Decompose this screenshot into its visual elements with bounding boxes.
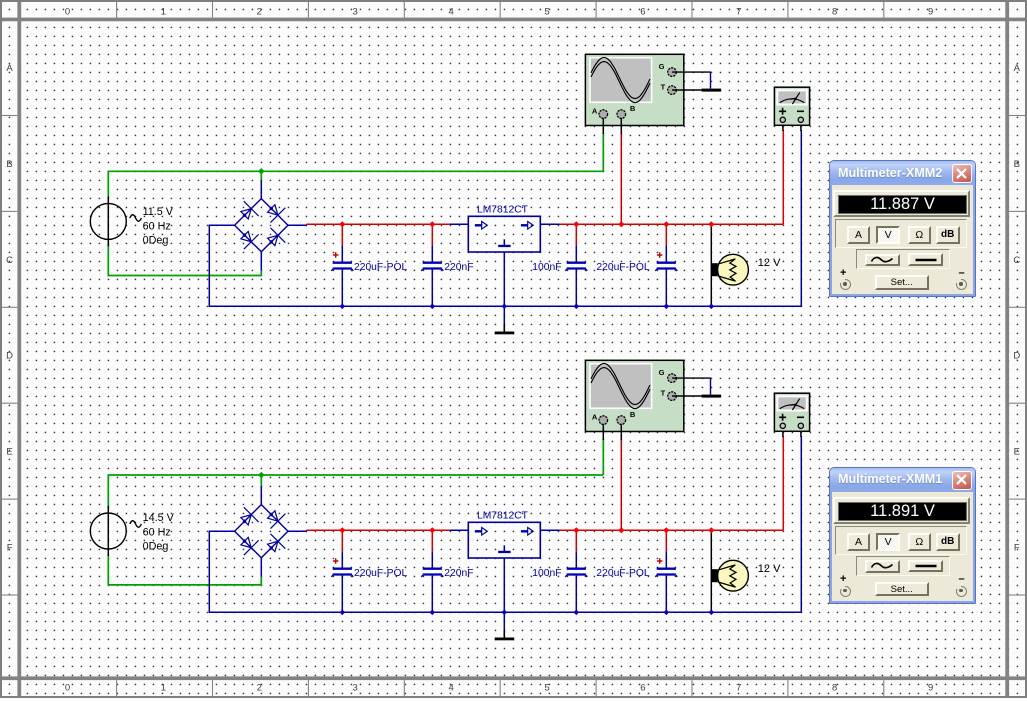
ruler numbers bottom (65, 682, 933, 693)
LCD display Multimeter-XMM1 (833, 497, 970, 524)
svg-text:220uF-POL: 220uF-POL (354, 262, 408, 273)
svg-text:F: F (7, 543, 13, 554)
wire green: bridge top stub (circuit 2) (260, 475, 262, 486)
voltmeter probe icon XMM (circuit 2) (774, 393, 809, 431)
ground symbol oscilloscope (circuit 2) (702, 395, 722, 398)
svg-text:11.5 V: 11.5 V (143, 206, 174, 218)
mode buttons panel Multimeter-XMM1 (835, 526, 967, 555)
svg-text:12 V: 12 V (758, 563, 781, 575)
wire: oscilloscope T to ground (circuit 2) (672, 395, 702, 397)
svg-text:A: A (6, 63, 13, 74)
label V2 value (143, 512, 175, 552)
wire: left return riser (circuit 1) (208, 225, 210, 307)
LCD display Multimeter-XMM2 (833, 190, 970, 217)
wire: oscilloscope T to ground (circuit 1) (672, 89, 702, 91)
junction dots ground rail (circuit 2) (339, 609, 714, 615)
wire green: oscilloscope A probe (circuit 2) (602, 439, 604, 475)
button A (847, 533, 870, 551)
waveform panel Multimeter-XMM2 (856, 249, 950, 269)
svg-text:60 Hz: 60 Hz (143, 220, 171, 232)
capacitor C2 220nF (circuit 2) (421, 532, 443, 612)
wire: ground bottom rail (circuit 1) (209, 305, 802, 307)
svg-text:6: 6 (640, 6, 645, 17)
svg-text:LM7812CT: LM7812CT (477, 205, 529, 216)
svg-text:D: D (6, 351, 13, 362)
label V1 value (143, 206, 174, 246)
bridge rectifier D2 (209, 486, 307, 577)
svg-text:4: 4 (448, 682, 453, 693)
wire green: source loop left vertical (circuit 1) (107, 171, 109, 199)
multimeter window Multimeter-XMM1 (829, 467, 976, 604)
svg-text:220uF-POL: 220uF-POL (596, 568, 650, 579)
wire red: riser to voltmeter plus (circuit 2) (782, 436, 784, 530)
svg-text:0Deg: 0Deg (143, 235, 169, 247)
plus terminal label (840, 573, 846, 585)
button Ohm (908, 533, 931, 551)
close button Multimeter-XMM1 (952, 471, 972, 490)
voltage regulator U1 LM7812CT (450, 216, 560, 252)
voltage regulator U2 LM7812CT (450, 522, 560, 558)
AC voltage source V1 (90, 196, 141, 246)
wire green: bridge top stub (circuit 1) (260, 171, 262, 180)
svg-text:0: 0 (65, 6, 70, 17)
svg-text:5: 5 (544, 682, 549, 693)
plus terminal jack (840, 586, 851, 597)
plus terminal jack (840, 279, 851, 290)
minus terminal label (959, 573, 965, 585)
svg-text:0Deg: 0Deg (143, 541, 169, 553)
svg-text:9: 9 (928, 6, 933, 17)
svg-text:220nF: 220nF (444, 568, 473, 579)
button A (847, 226, 870, 244)
wire red: rectifier output rail (circuit 2) (306, 529, 450, 531)
capacitor C4 220uF-POL (circuit 2) (655, 532, 677, 612)
svg-text:B: B (1014, 159, 1020, 170)
svg-text:2: 2 (257, 682, 262, 693)
ruler numbers top (65, 6, 933, 17)
wire: oscilloscope G to ground (circuit 2) (672, 377, 710, 379)
plus terminal label (840, 267, 846, 279)
ruler letters left (6, 63, 13, 554)
wire green: source loop left vertical (circuit 2) (107, 475, 109, 509)
bridge rectifier D1 (209, 180, 307, 271)
minus terminal jack (956, 279, 967, 290)
junction green node (circuit 1) (258, 168, 265, 175)
capacitor C3 100nF (circuit 2) (565, 532, 587, 612)
svg-text:3: 3 (353, 6, 358, 17)
wire green: source bottom vertical (circuit 1) (107, 244, 109, 276)
button Ohm (908, 226, 931, 244)
wire: right riser to voltmeter minus (circuit 2) (800, 436, 802, 612)
wire red: rectifier output rail (circuit 1) (306, 223, 450, 225)
oscilloscope XSC2 (585, 360, 683, 431)
pin stubs voltmeter (circuit 2) (783, 431, 801, 437)
svg-text:G: G (659, 368, 665, 377)
svg-text:220uF-POL: 220uF-POL (354, 568, 408, 579)
svg-text:C: C (1013, 255, 1020, 266)
wire: oscilloscope G to ground (circuit 1) (672, 71, 710, 73)
capacitor C4 220uF-POL (circuit 1) (655, 226, 677, 306)
button dB (936, 226, 960, 244)
svg-text:F: F (1014, 543, 1020, 554)
wire: regulator common down (circuit 2) (503, 558, 505, 630)
button V (selected) (876, 226, 899, 244)
svg-text:9: 9 (928, 682, 933, 693)
wire green: source bottom vertical (circuit 2) (107, 554, 109, 585)
svg-text:4: 4 (448, 6, 453, 17)
lamp X2 12V (711, 560, 748, 591)
wire: regulator common down (circuit 1) (503, 252, 505, 324)
svg-text:1: 1 (161, 682, 166, 693)
svg-text:5: 5 (544, 6, 549, 17)
svg-text:T: T (661, 389, 666, 398)
svg-text:12 V: 12 V (758, 257, 781, 269)
wire red: riser to voltmeter plus (circuit 1) (782, 130, 784, 224)
capacitor C2 220nF (circuit 1) (421, 226, 443, 306)
pin stubs voltmeter (circuit 1) (783, 125, 801, 131)
button DC (908, 253, 943, 266)
pin stubs oscilloscope A/B (circuit 1) (603, 118, 621, 134)
ground symbol (circuit 2) (495, 630, 515, 640)
wire red: regulator output rail (circuit 1) (560, 223, 784, 225)
oscilloscope XSC1 (585, 54, 683, 125)
ruler letters right (1013, 63, 1020, 554)
svg-text:2: 2 (257, 6, 262, 17)
svg-text:C: C (6, 255, 13, 266)
junction green node (circuit 2) (258, 472, 265, 479)
AC voltage source V2 (90, 506, 141, 556)
ground symbol oscilloscope (circuit 1) (702, 89, 722, 92)
wire: right riser to voltmeter minus (circuit 1) (800, 130, 802, 306)
svg-text:G: G (659, 62, 665, 71)
svg-text:60 Hz: 60 Hz (143, 526, 171, 538)
waveform panel Multimeter-XMM1 (856, 556, 950, 576)
wire: lamp branch (circuit 1) (710, 224, 712, 306)
ground symbol (circuit 1) (495, 324, 515, 334)
svg-text:220uF-POL: 220uF-POL (596, 262, 650, 273)
svg-text:A: A (592, 107, 598, 116)
svg-text:B: B (630, 104, 636, 113)
title bar Multimeter-XMM2 (830, 161, 975, 185)
svg-text:100nF: 100nF (532, 568, 561, 579)
minus terminal label (959, 267, 965, 279)
svg-text:B: B (6, 159, 12, 170)
junction dots red rail (circuit 2) (339, 527, 714, 533)
svg-text:E: E (1014, 447, 1020, 458)
svg-text:0: 0 (65, 682, 70, 693)
wire: lamp branch (circuit 2) (710, 530, 712, 612)
voltmeter probe icon XMM (circuit 1) (774, 87, 809, 125)
svg-text:1: 1 (161, 6, 166, 17)
svg-text:14.5 V: 14.5 V (143, 512, 175, 524)
wire green: oscilloscope A probe (circuit 1) (602, 133, 604, 171)
wire red: oscilloscope B probe (circuit 1) (620, 133, 622, 224)
button AC (865, 560, 900, 573)
close button Multimeter-XMM2 (952, 164, 972, 183)
svg-text:8: 8 (832, 6, 837, 17)
Set button (875, 582, 930, 596)
svg-text:6: 6 (640, 682, 645, 693)
capacitor C1 220uF-POL (circuit 1) (331, 226, 353, 306)
svg-text:220nF: 220nF (444, 262, 473, 273)
multimeter window Multimeter-XMM2 (829, 160, 976, 297)
title bar Multimeter-XMM1 (830, 468, 975, 492)
svg-text:8: 8 (832, 682, 837, 693)
mode buttons panel Multimeter-XMM2 (835, 219, 967, 248)
wire red: oscilloscope B probe (circuit 2) (620, 439, 622, 530)
wire green: top rail (circuit 1) (108, 170, 604, 172)
button AC (865, 254, 900, 267)
wire: left return riser (circuit 2) (208, 531, 210, 613)
svg-text:E: E (6, 447, 12, 458)
button DC (908, 560, 943, 573)
minus terminal jack (956, 586, 967, 597)
capacitor C3 100nF (circuit 1) (565, 226, 587, 306)
svg-text:A: A (1014, 63, 1021, 74)
wire green: bottom run to bridge (circuit 2) (108, 577, 262, 585)
svg-text:B: B (630, 410, 636, 419)
lamp X1 12V (711, 254, 748, 285)
pin stubs oscilloscope A/B (circuit 2) (603, 424, 621, 440)
svg-text:3: 3 (353, 682, 358, 693)
svg-text:A: A (592, 413, 598, 422)
svg-text:LM7812CT: LM7812CT (477, 511, 529, 522)
wire green: top rail (circuit 2) (108, 474, 604, 476)
svg-text:7: 7 (736, 682, 741, 693)
button V (selected) (876, 533, 899, 551)
svg-text:D: D (1013, 351, 1020, 362)
wire red: regulator output rail (circuit 2) (560, 529, 784, 531)
Set button (875, 275, 930, 289)
svg-text:100nF: 100nF (532, 262, 561, 273)
svg-text:T: T (661, 83, 666, 92)
junction dots ground rail (circuit 1) (339, 303, 714, 309)
wire green: bottom run to bridge (circuit 1) (108, 271, 262, 276)
junction dots red rail (circuit 1) (339, 221, 714, 227)
capacitor C1 220uF-POL (circuit 2) (331, 532, 353, 612)
button dB (936, 533, 960, 551)
svg-text:7: 7 (736, 6, 741, 17)
wire: ground bottom rail (circuit 2) (209, 611, 802, 613)
